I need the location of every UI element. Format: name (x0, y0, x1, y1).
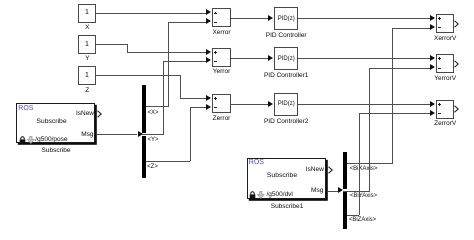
ROS Subscribe1 block (247, 158, 326, 199)
wire Xerror to PID Controller (231, 18, 269, 19)
node <X> label (147, 110, 158, 116)
sum XerrorV (436, 14, 455, 33)
sum ZerrorV (436, 100, 455, 119)
bus selector 1 input port notch (142, 133, 146, 136)
bus selector 2 input port notch (343, 189, 347, 192)
node <BiZAxis> label (349, 217, 376, 223)
bus selector 2 (343, 152, 347, 230)
label Z (85, 87, 89, 94)
download arrow icon (257, 191, 265, 199)
node <BiXAxis> label (350, 166, 378, 172)
wire Zerror to PID Controller2 (231, 104, 269, 105)
wire <BiYAxis> to YerrorV minus (347, 191, 370, 192)
sum Zerror (212, 94, 231, 113)
wire <Z> to Zerror minus (146, 161, 190, 162)
output port IsNew1 (328, 166, 334, 174)
wire Yerror to PID Controller1 (231, 58, 269, 59)
wire Z const to Zerror plus (96, 75, 181, 76)
label X (85, 24, 89, 31)
wire PID Controller1 to YerrorV plus (298, 58, 431, 59)
constant X (78, 4, 97, 23)
label Y (85, 55, 89, 62)
wire <Y> to Yerror minus (146, 134, 163, 135)
wire PID Controller to XerrorV plus (298, 18, 431, 19)
lock icon (19, 136, 26, 145)
PID Controller2 U3 (274, 93, 298, 116)
bus selector 1 (142, 85, 146, 178)
wire <X> to Xerror minus (146, 106, 168, 107)
wire PID Controller2 to ZerrorV plus (298, 104, 431, 105)
constant Z (78, 66, 97, 85)
PID Controller1 U2 (274, 47, 298, 70)
wire X const to Xerror plus (96, 13, 208, 14)
sum Xerror (212, 8, 231, 27)
wire Subscribe Msg to bus selector 1 (97, 134, 137, 135)
download arrow icon (27, 136, 35, 144)
ROS Subscribe block (16, 103, 95, 142)
constant Y (78, 35, 97, 54)
sum Yerror (212, 48, 231, 67)
output port XerrorV (454, 20, 460, 28)
lock icon (249, 191, 256, 200)
node <Z> label (147, 164, 158, 170)
node <Y> label (147, 137, 158, 143)
output port YerrorV (454, 60, 460, 68)
output port IsNew (97, 110, 103, 118)
wire <BiZAxis> to ZerrorV minus (347, 215, 360, 216)
output port ZerrorV (454, 105, 460, 113)
wire Subscribe1 Msg to bus selector 2 (328, 191, 338, 192)
wire Y const to Yerror plus (96, 44, 127, 45)
PID Controller U1 (274, 7, 298, 30)
sum YerrorV (436, 54, 455, 73)
node <BiYAxis> label (350, 193, 377, 199)
wire <BiXAxis> to XerrorV minus (347, 163, 393, 164)
